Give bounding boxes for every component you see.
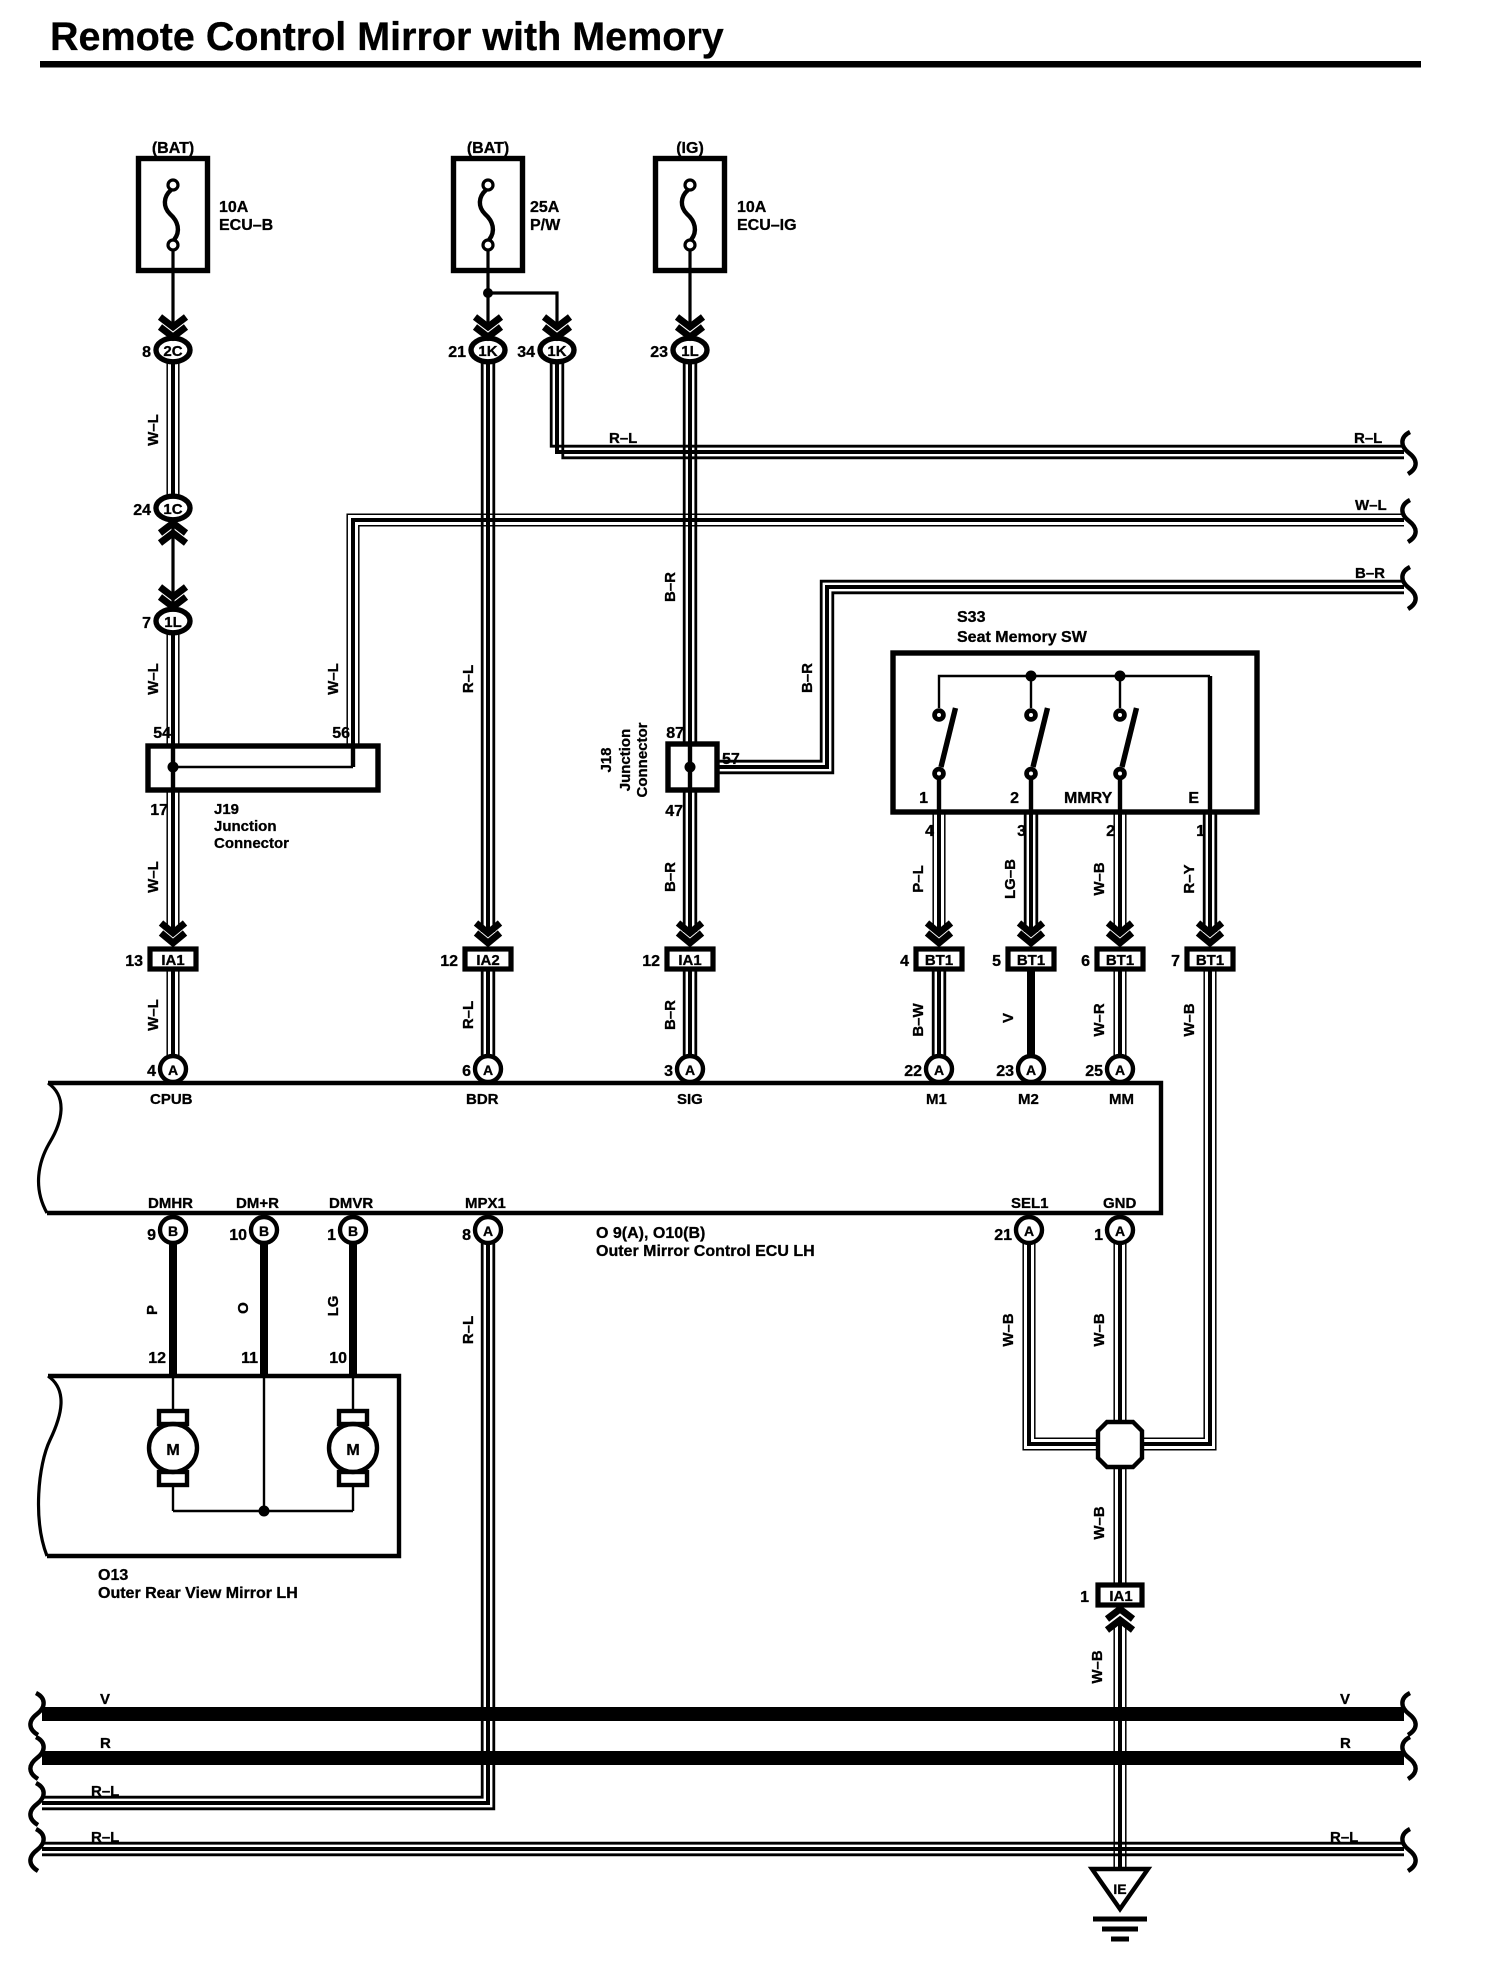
fuse F1 10A ECU-B	[139, 140, 274, 271]
node S33 bus dot 2	[1115, 671, 1126, 682]
arrow up below IA1	[1107, 1609, 1133, 1630]
wire fuse F2 lead	[486, 250, 489, 330]
svg-text:21: 21	[448, 344, 466, 361]
svg-text:(BAT): (BAT)	[152, 140, 194, 157]
junction connector J19	[148, 725, 378, 852]
wire ECU pin21 SEL1 W-B to splice	[1000, 1243, 1096, 1450]
svg-text:11: 11	[241, 1350, 258, 1367]
svg-text:W–L: W–L	[145, 663, 162, 695]
svg-text:V: V	[100, 1691, 110, 1708]
svg-text:V: V	[1000, 1013, 1017, 1023]
svg-text:1: 1	[1196, 823, 1205, 840]
wire 1C to 1L single	[171, 521, 174, 608]
wire J19 pin17 to IA1 W-L	[145, 790, 179, 932]
wire S33 pin4 to BT1 P-L	[910, 812, 945, 932]
wire ECU pin8 MPX1 R-L down to bus	[42, 1243, 494, 1809]
connector IA1 pin 12	[642, 949, 713, 970]
svg-text:R–L: R–L	[460, 1316, 477, 1344]
svg-text:B–R: B–R	[1355, 565, 1385, 582]
svg-text:A: A	[1115, 1223, 1125, 1239]
svg-text:34: 34	[517, 344, 535, 361]
wire IA2 to ECU pin6 R-L	[460, 971, 494, 1058]
connector 1L pin 7	[142, 609, 190, 633]
pin 1 A circle GND	[1094, 1217, 1133, 1244]
switch SW1	[919, 708, 955, 812]
svg-text:10: 10	[329, 1350, 347, 1367]
svg-text:B–R: B–R	[799, 663, 816, 693]
connector 2C pin 8	[142, 338, 190, 362]
svg-text:W–L: W–L	[325, 663, 342, 695]
svg-text:10A: 10A	[737, 199, 767, 216]
svg-text:Connector: Connector	[214, 835, 289, 852]
svg-text:ECU–IG: ECU–IG	[737, 217, 797, 234]
svg-text:B–R: B–R	[662, 862, 679, 892]
pin 9 B circle DMHR	[147, 1217, 186, 1244]
pin 22 A circle M1	[904, 1056, 952, 1082]
svg-text:M2: M2	[1018, 1091, 1039, 1108]
break symbol B-R right end	[1402, 567, 1415, 609]
wire S33 pin3 to BT1 LG-B	[1002, 812, 1037, 932]
svg-text:IA1: IA1	[161, 952, 184, 969]
wire J18 pin47 to IA1 B-R	[662, 790, 696, 932]
svg-text:MM: MM	[1109, 1091, 1134, 1108]
connector BT1 pin 4	[900, 949, 962, 970]
svg-text:6: 6	[1081, 953, 1090, 970]
svg-text:2: 2	[1106, 823, 1115, 840]
svg-text:R–L: R–L	[91, 1783, 119, 1800]
svg-text:4: 4	[925, 823, 934, 840]
svg-text:25: 25	[1085, 1063, 1103, 1080]
svg-text:V: V	[1340, 1691, 1350, 1708]
arrow into BT1 pin6	[1108, 923, 1132, 943]
svg-text:O: O	[235, 1302, 252, 1314]
svg-text:W–B: W–B	[1091, 1506, 1108, 1540]
svg-text:R–Y: R–Y	[1181, 864, 1198, 893]
motor M1	[149, 1411, 197, 1485]
svg-text:W–B: W–B	[1089, 1650, 1106, 1684]
svg-text:Junction: Junction	[617, 729, 634, 792]
svg-text:SIG: SIG	[677, 1091, 703, 1108]
svg-text:B–R: B–R	[662, 1000, 679, 1030]
svg-text:A: A	[483, 1062, 493, 1078]
wire BT1 to ECU pin23 V thick	[1000, 971, 1031, 1058]
svg-text:W–B: W–B	[1181, 1003, 1198, 1037]
wire motor2 to common	[352, 1485, 354, 1511]
wire fuse F1 lead	[171, 250, 174, 330]
svg-text:3: 3	[664, 1063, 673, 1080]
svg-text:A: A	[1115, 1062, 1125, 1078]
fuse F3 10A ECU-IG	[656, 140, 797, 271]
bus R-L full width	[42, 1829, 1404, 1855]
node O13 common junction	[259, 1506, 270, 1517]
svg-text:CPUB: CPUB	[150, 1091, 193, 1108]
pin 1 B circle DMVR	[327, 1217, 366, 1244]
svg-text:W–L: W–L	[145, 414, 162, 446]
svg-text:R–L: R–L	[460, 1001, 477, 1029]
svg-text:10: 10	[229, 1227, 247, 1244]
ECU box Outer Mirror Control ECU LH	[39, 1083, 1161, 1260]
pin 25 A circle MM	[1085, 1056, 1133, 1082]
connector BT1 pin 6	[1081, 949, 1143, 970]
svg-text:12: 12	[440, 953, 458, 970]
svg-text:4: 4	[147, 1063, 156, 1080]
svg-text:M: M	[346, 1442, 359, 1459]
component O13 Outer Rear View Mirror LH box	[39, 1376, 399, 1602]
arrow into 1K pin21	[475, 317, 501, 337]
svg-text:Junction: Junction	[214, 818, 277, 835]
svg-text:25A: 25A	[530, 199, 560, 216]
svg-text:BT1: BT1	[925, 952, 953, 969]
svg-text:W–L: W–L	[1355, 497, 1387, 514]
svg-text:R–L: R–L	[1354, 430, 1382, 447]
svg-text:1L: 1L	[681, 343, 699, 360]
svg-text:R: R	[100, 1735, 111, 1752]
wire O13 common bus	[173, 1510, 353, 1512]
svg-text:S33: S33	[957, 609, 986, 626]
svg-text:Outer Mirror Control ECU LH: Outer Mirror Control ECU LH	[596, 1243, 815, 1260]
svg-text:W–B: W–B	[1091, 862, 1108, 896]
junction connector J18	[598, 722, 740, 820]
svg-text:4: 4	[900, 953, 909, 970]
wire splice to IA1 W-B	[1091, 1467, 1126, 1583]
ground IE	[1092, 1869, 1148, 1939]
svg-text:R–L: R–L	[609, 430, 637, 447]
arrow into BT1 pin5	[1019, 923, 1043, 943]
wire IA1 to ECU pin3 B-R	[662, 971, 696, 1058]
connector IA1 pin 1 bottom	[1080, 1585, 1142, 1606]
svg-text:A: A	[168, 1062, 178, 1078]
svg-text:BDR: BDR	[466, 1091, 499, 1108]
connector 1K pin 34	[517, 338, 574, 362]
svg-text:Remote Control Mirror with Mem: Remote Control Mirror with Memory	[50, 15, 724, 59]
wire J19 pin56 riser to W-L bus	[325, 497, 1404, 746]
connector IA2 pin 12	[440, 949, 511, 970]
svg-text:10A: 10A	[219, 199, 249, 216]
splice octagon	[1098, 1422, 1142, 1467]
node S33 bus dot 1	[1026, 671, 1037, 682]
svg-text:O13: O13	[98, 1567, 128, 1584]
svg-text:24: 24	[133, 502, 151, 519]
svg-text:21: 21	[994, 1227, 1012, 1244]
svg-text:M1: M1	[926, 1091, 947, 1108]
break symbol R-L bus2 left	[30, 1829, 43, 1871]
arrow into IA2	[476, 923, 500, 943]
wire 1K34 to R-L bus	[551, 363, 1404, 458]
arrow into BT1 pin7	[1198, 923, 1222, 943]
svg-text:IA1: IA1	[678, 952, 701, 969]
svg-text:7: 7	[142, 615, 151, 632]
arrow into BT1 pin4	[927, 923, 951, 943]
svg-text:1: 1	[919, 790, 928, 807]
svg-text:1: 1	[1094, 1227, 1103, 1244]
wire J18 pin57 to B-R bus	[717, 565, 1404, 773]
svg-text:B: B	[168, 1223, 178, 1239]
connector BT1 pin 5	[992, 949, 1054, 970]
break symbol R-L bus1 left end	[30, 1783, 43, 1825]
wire 1L to J19 pin54 W-L	[145, 634, 179, 746]
svg-text:W–L: W–L	[145, 999, 162, 1031]
svg-text:12: 12	[148, 1350, 166, 1367]
svg-text:A: A	[1024, 1223, 1034, 1239]
ECU pin labels top	[150, 1091, 1134, 1108]
svg-text:J18: J18	[598, 747, 615, 772]
svg-text:P–L: P–L	[910, 865, 927, 893]
wire 1K21 to IA2 R-L	[460, 363, 494, 932]
svg-text:SEL1: SEL1	[1011, 1195, 1049, 1212]
pin 8 A circle MPX1	[462, 1217, 501, 1244]
svg-text:B–W: B–W	[910, 1002, 927, 1036]
wire S33 E line	[1188, 676, 1210, 812]
svg-text:8: 8	[142, 344, 151, 361]
svg-text:13: 13	[125, 953, 143, 970]
motor M2	[329, 1411, 377, 1485]
svg-text:9: 9	[147, 1227, 156, 1244]
svg-text:IA2: IA2	[476, 952, 499, 969]
svg-text:B: B	[259, 1223, 269, 1239]
wire 2C to 1C W-L	[145, 363, 179, 496]
svg-text:B–R: B–R	[662, 572, 679, 602]
svg-text:M: M	[166, 1442, 179, 1459]
svg-text:8: 8	[462, 1227, 471, 1244]
pin 23 A circle M2	[996, 1056, 1044, 1082]
svg-text:BT1: BT1	[1017, 952, 1045, 969]
svg-text:W–L: W–L	[145, 861, 162, 893]
svg-text:DMVR: DMVR	[329, 1195, 373, 1212]
title	[40, 15, 1421, 68]
svg-text:BT1: BT1	[1196, 952, 1224, 969]
svg-text:E: E	[1188, 790, 1199, 807]
svg-text:ECU–B: ECU–B	[219, 217, 273, 234]
svg-text:IE: IE	[1113, 1881, 1126, 1897]
wire BT1 to ECU pin25 W-R	[1091, 971, 1126, 1058]
bus R	[42, 1735, 1404, 1758]
connector IA1 pin 13	[125, 949, 196, 970]
arrow into IA1 col1	[161, 923, 185, 943]
wire O13 pin10 to motor2	[352, 1376, 354, 1413]
svg-text:6: 6	[462, 1063, 471, 1080]
break symbol V left	[30, 1693, 43, 1735]
wire 1L23 to J18 B-R	[662, 363, 696, 746]
break symbol W-L right end	[1402, 500, 1415, 542]
break symbol R-L right end	[1402, 432, 1415, 474]
svg-text:B: B	[348, 1223, 358, 1239]
wire ECU pin1 to O13 pin10 LG thick	[325, 1243, 353, 1374]
wire S33 pin2 to BT1 W-B	[1091, 812, 1126, 932]
svg-text:LG–B: LG–B	[1002, 859, 1019, 899]
svg-text:22: 22	[904, 1063, 922, 1080]
svg-text:1C: 1C	[163, 501, 182, 518]
svg-text:2: 2	[1010, 790, 1019, 807]
svg-text:BT1: BT1	[1106, 952, 1134, 969]
switch S33 Seat Memory SW	[893, 609, 1257, 812]
connector 1C pin 24	[133, 496, 190, 520]
svg-text:GND: GND	[1103, 1195, 1137, 1212]
svg-text:W–R: W–R	[1091, 1003, 1108, 1037]
svg-text:P/W: P/W	[530, 217, 561, 234]
wire fuse F3 lead	[688, 250, 691, 330]
svg-text:Outer Rear View Mirror LH: Outer Rear View Mirror LH	[98, 1585, 298, 1602]
svg-text:O 9(A), O10(B): O 9(A), O10(B)	[596, 1225, 705, 1242]
wire S33 pinE to BT1 R-Y	[1181, 812, 1216, 932]
wire O13 pin11 to common	[263, 1376, 265, 1511]
wire ECU pin10 to O13 pin11 O thick	[235, 1243, 264, 1374]
svg-text:A: A	[1026, 1062, 1036, 1078]
ECU pin labels bottom	[148, 1195, 1137, 1212]
svg-text:1: 1	[1080, 1589, 1089, 1606]
arrow into IA1 col3	[678, 923, 702, 943]
connector 1K pin 21	[448, 338, 505, 362]
fuse F2 25A P/W	[454, 140, 562, 271]
svg-text:3: 3	[1017, 823, 1026, 840]
svg-text:1L: 1L	[164, 614, 182, 631]
svg-text:MPX1: MPX1	[465, 1195, 506, 1212]
wire O13 pin12 to motor1	[172, 1376, 174, 1413]
wire IA1 to ground W-B	[1089, 1624, 1126, 1869]
node F2 branch junction	[483, 288, 493, 298]
svg-text:47: 47	[665, 803, 683, 820]
arrow into 1L pin23	[677, 317, 703, 337]
svg-text:A: A	[483, 1223, 493, 1239]
pin 10 B circle DM+R	[229, 1217, 277, 1244]
wire BT1 to ECU pin22 B-W	[910, 971, 945, 1058]
arrow into 1L pin7	[160, 587, 186, 607]
svg-text:1K: 1K	[547, 343, 566, 360]
svg-text:A: A	[934, 1062, 944, 1078]
arrow into 2C	[160, 317, 186, 337]
pin 21 A circle SEL1	[994, 1217, 1042, 1244]
wire IA1 to ECU pin4 W-L	[145, 971, 179, 1058]
svg-text:P: P	[144, 1305, 161, 1315]
arrow into 1K pin34	[544, 317, 570, 337]
svg-text:Connector: Connector	[634, 722, 651, 797]
wire ECU pin1 GND W-B to splice	[1091, 1243, 1126, 1420]
svg-text:87: 87	[666, 725, 684, 742]
svg-text:LG: LG	[325, 1296, 342, 1317]
svg-text:1: 1	[327, 1227, 336, 1244]
pin 3 A circle SIG	[664, 1056, 703, 1082]
switch SW2	[1010, 708, 1047, 812]
svg-text:MMRY: MMRY	[1064, 790, 1113, 807]
svg-text:23: 23	[650, 344, 668, 361]
svg-text:(IG): (IG)	[676, 140, 704, 157]
break symbol V right	[1402, 1693, 1415, 1735]
svg-text:17: 17	[150, 802, 168, 819]
svg-text:5: 5	[992, 953, 1001, 970]
break symbol R right	[1402, 1737, 1415, 1779]
connector BT1 pin 7	[1171, 949, 1233, 970]
svg-text:DM+R: DM+R	[236, 1195, 279, 1212]
pin 4 A circle CPUB	[147, 1056, 186, 1082]
svg-text:2C: 2C	[163, 343, 182, 360]
svg-text:W–B: W–B	[1091, 1313, 1108, 1347]
bus V	[42, 1691, 1404, 1714]
svg-text:R: R	[1340, 1735, 1351, 1752]
svg-text:IA1: IA1	[1109, 1588, 1132, 1605]
wire S33 internal bus	[939, 676, 1210, 708]
connector 1L pin 23	[650, 338, 707, 362]
svg-text:A: A	[685, 1062, 695, 1078]
svg-text:W–B: W–B	[1000, 1313, 1017, 1347]
wire BT1 pin7 down W-B to splice	[1144, 971, 1216, 1450]
svg-text:R–L: R–L	[460, 665, 477, 693]
svg-text:1K: 1K	[478, 343, 497, 360]
svg-text:23: 23	[996, 1063, 1014, 1080]
svg-text:Seat Memory SW: Seat Memory SW	[957, 629, 1088, 646]
svg-text:(BAT): (BAT)	[467, 140, 509, 157]
wire branch to 1K pin34	[488, 293, 557, 330]
wire ECU pin9 to O13 pin12 P thick	[144, 1243, 173, 1374]
svg-text:DMHR: DMHR	[148, 1195, 193, 1212]
break symbol R left	[30, 1737, 43, 1779]
svg-text:54: 54	[153, 725, 171, 742]
arrow up below 1C	[160, 523, 186, 543]
break symbol R-L bus2 right	[1402, 1829, 1415, 1871]
wire motor1 to common	[172, 1485, 174, 1511]
svg-text:J19: J19	[214, 801, 239, 818]
pin 6 A circle BDR	[462, 1056, 501, 1082]
svg-text:7: 7	[1171, 953, 1180, 970]
switch SW3 MMRY	[1064, 708, 1137, 812]
svg-text:12: 12	[642, 953, 660, 970]
